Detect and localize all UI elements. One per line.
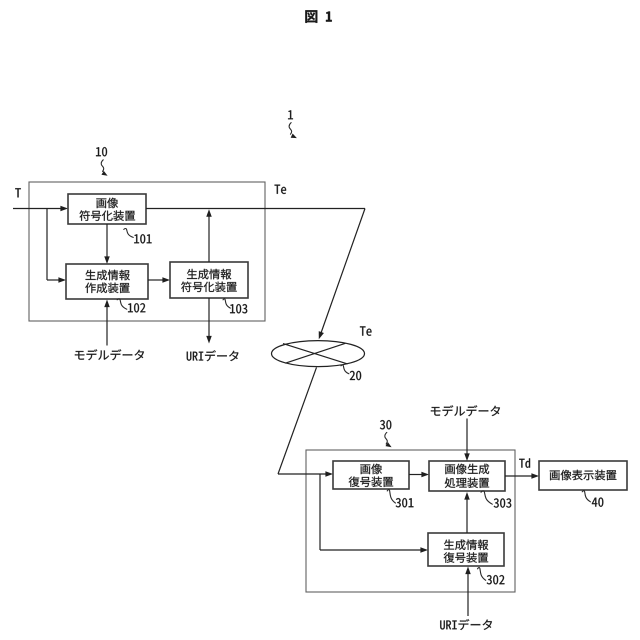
text 復号装置 in box 302 <box>444 552 488 562</box>
wire branch T down to box 102 <box>47 209 66 283</box>
wire 103 up to Te line <box>206 209 212 262</box>
leader squiggle for 101 <box>124 229 133 238</box>
leader squiggle for 40 <box>582 491 590 502</box>
box 301 画像復号装置 (image decoding device) <box>333 461 409 489</box>
label 30 <box>380 420 391 429</box>
ellipse 20 (network) <box>272 341 365 367</box>
label 103 <box>230 304 247 313</box>
text 画像 in box 301 <box>360 464 382 474</box>
label モデルデータ (model data, encoder) <box>75 349 144 360</box>
label Te (at network) <box>360 326 372 335</box>
wire diagonal network to decoder <box>278 367 317 474</box>
label 303 <box>494 498 512 507</box>
text 符号化装置 in box 103 <box>181 282 237 292</box>
leader squiggle for 302 <box>478 568 486 581</box>
wire into box 301 <box>278 471 333 477</box>
label Td <box>519 458 530 467</box>
leader squiggle for 10 with arrowhead <box>101 160 107 176</box>
wire model data into 102 <box>104 300 110 346</box>
label 10 <box>96 147 107 156</box>
wire URI data into 302 <box>465 567 471 617</box>
label 101 <box>134 234 151 243</box>
label URIデータ (URI data, encoder) <box>187 350 239 361</box>
text 画像生成 in box 303 <box>445 464 489 474</box>
leader squiggle for 20 <box>341 365 349 374</box>
leader squiggle for 30 with arrowhead <box>385 432 392 447</box>
wire T input into box 101 <box>13 206 68 212</box>
leader squiggle for 301 <box>387 490 395 503</box>
leader squiggle for 103 <box>223 299 230 308</box>
label 302 <box>487 575 505 584</box>
text 処理装置 in box 303 <box>445 478 489 488</box>
wire 101 down to 102 <box>104 224 110 264</box>
label 102 <box>128 303 145 312</box>
leader squiggle for 102 <box>117 299 127 309</box>
text 符号化装置 in box 101 <box>79 210 135 220</box>
text 生成情報 in box 103 <box>187 269 231 279</box>
wire 301 to 303 <box>409 472 429 478</box>
label 40 <box>592 498 603 507</box>
wire Te output line <box>146 208 365 210</box>
box 302 生成情報復号装置 (generation info decoding device) <box>428 533 504 566</box>
wire 103 down URI data out <box>206 298 212 344</box>
wire 303 to display 40 <box>505 473 539 479</box>
title 図 1 <box>305 10 331 23</box>
label モデルデータ (model data, decoder) <box>431 405 500 416</box>
leader squiggle for 303 <box>481 491 492 504</box>
outer box 10 (encoding apparatus) <box>29 182 265 321</box>
label 20 <box>350 371 361 380</box>
box 102 生成情報作成装置 (generation info creation device) <box>66 264 148 299</box>
text 画像表示装置 in box 40 <box>550 470 617 480</box>
box 303 画像生成処理装置 (image generation processing device) <box>429 461 505 491</box>
label 301 <box>396 498 414 507</box>
box 103 生成情報符号化装置 (generation info encoding device) <box>170 262 248 298</box>
text 生成情報 in box 102 <box>86 270 130 280</box>
wire 302 up to 303 <box>464 492 470 533</box>
label 1 (figure reference) <box>288 110 293 119</box>
wire diagonal Te into network <box>319 209 365 340</box>
wire model data into 303 <box>464 419 470 462</box>
label URIデータ (URI data, decoder) <box>440 619 492 630</box>
box 101 画像符号化装置 (image encoding device) <box>68 194 146 224</box>
text 画像 in box 101 <box>96 198 118 208</box>
crossing chord 1 in ellipse <box>283 344 348 364</box>
text 作成装置 in box 102 <box>85 283 129 293</box>
wire branch down to box 302 <box>320 474 428 553</box>
box 40 画像表示装置 (image display device) <box>539 461 627 490</box>
leader squiggle for 1 <box>289 123 297 139</box>
crossing chord 2 in ellipse <box>285 343 345 363</box>
text 生成情報 in box 302 <box>444 540 488 550</box>
label T (input signal) <box>15 188 21 197</box>
outer box 30 (decoding apparatus) <box>306 450 515 592</box>
wire 102 to 103 <box>148 277 170 283</box>
text 復号装置 in box 301 <box>349 476 393 486</box>
label Te (at encoder output) <box>275 185 287 194</box>
